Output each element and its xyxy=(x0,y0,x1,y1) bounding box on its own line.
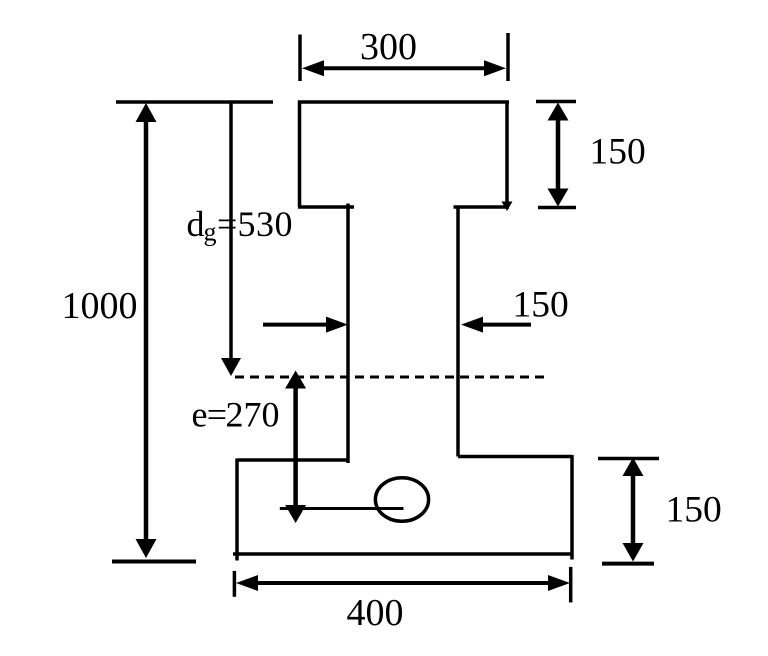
dimension 1000: down arrowhead xyxy=(136,539,157,558)
dimension 300: right arrowhead xyxy=(484,60,506,76)
dimension 300: arrow line xyxy=(308,66,500,70)
dimension 150 (web width): left arrowhead pointing right xyxy=(326,317,348,333)
dimension 150 (bottom flange depth): arrow line xyxy=(631,466,636,553)
dimension 150 (top flange depth): bottom tick xyxy=(538,206,576,210)
dimension 1000: bottom reference tick xyxy=(112,560,196,564)
tendon duct circle xyxy=(375,478,428,522)
dimension 150 (bottom flange depth): up arrowhead xyxy=(623,458,644,477)
bottom flange top-left segment xyxy=(237,458,348,462)
bottom flange top-right segment xyxy=(458,455,572,459)
tendon centre line xyxy=(280,507,404,510)
svg-text:dg=530: dg=530 xyxy=(187,204,294,247)
dimension dg=530: down arrowhead xyxy=(221,358,241,376)
dimension 150 (bottom flange depth): top tick xyxy=(598,457,659,461)
top flange right edge xyxy=(505,101,509,206)
web right edge xyxy=(456,207,460,457)
svg-text:150: 150 xyxy=(590,132,646,173)
svg-text:150: 150 xyxy=(666,490,722,531)
dimension 1000: up arrowhead xyxy=(136,103,157,122)
dimension e=270: up arrowhead xyxy=(285,371,306,389)
dimension 150 (bottom flange depth): bottom tick xyxy=(602,562,654,566)
arrowhead at top-flange right bottom corner xyxy=(502,202,513,212)
bottom flange right edge xyxy=(570,455,574,560)
dimension 300: left extension tick xyxy=(298,35,302,82)
dimension 300: right extension tick xyxy=(506,33,510,81)
dimension 400: left extension tick xyxy=(233,571,237,597)
web left edge xyxy=(346,204,350,464)
svg-text:400: 400 xyxy=(347,592,404,634)
top flange bottom right segment xyxy=(454,205,510,209)
svg-text:150: 150 xyxy=(513,285,569,326)
top flange top edge xyxy=(298,100,509,104)
dimension 1000: arrow line xyxy=(144,112,149,548)
top flange left edge xyxy=(298,101,302,208)
dimension 300: left arrowhead xyxy=(302,60,324,76)
dimension 150 (web width): right arrow line xyxy=(468,323,531,327)
dimension 150 (top flange depth): down arrowhead xyxy=(548,189,569,207)
dimension e=270: down arrowhead xyxy=(285,505,306,523)
dimension 150 (top flange depth): top tick xyxy=(536,100,576,104)
dimension dg=530: arrow line xyxy=(229,102,233,362)
dimension 150 (top flange depth): arrow line xyxy=(556,110,561,198)
dimension 150 (web width): left arrow line xyxy=(263,323,342,327)
dimension 400: left arrowhead xyxy=(236,575,258,591)
svg-text:1000: 1000 xyxy=(62,285,138,327)
centroid dashed line xyxy=(235,376,547,379)
svg-text:300: 300 xyxy=(360,26,417,68)
bottom flange left edge xyxy=(235,459,239,561)
dimension 400: right extension tick xyxy=(569,567,573,603)
svg-text:e=270: e=270 xyxy=(192,395,280,435)
dimension 400: arrow line xyxy=(243,581,563,585)
top flange bottom left segment xyxy=(298,205,354,209)
bottom flange bottom edge xyxy=(233,552,572,556)
dimension 150 (bottom flange depth): down arrowhead xyxy=(623,543,644,562)
dimension 1000: top reference tick xyxy=(116,100,273,104)
dimension 400: right arrowhead xyxy=(548,575,570,591)
dimension 150 (web width): right arrowhead pointing left xyxy=(461,317,483,333)
dimension e=270: arrow line xyxy=(293,378,298,515)
dimension 150 (top flange depth): up arrowhead xyxy=(548,103,569,121)
